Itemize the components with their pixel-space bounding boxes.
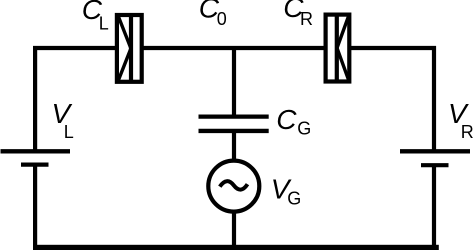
- svg-text:C: C: [276, 104, 297, 135]
- svg-text:G: G: [297, 119, 311, 139]
- battery VR short plate: [421, 163, 449, 167]
- wire VG to bottom bus: [232, 210, 236, 247]
- wire right vertical lower: [432, 165, 436, 247]
- capacitor CG top plate: [199, 114, 269, 118]
- wire left vertical lower: [33, 165, 37, 247]
- tunnel junction CR box: [326, 15, 350, 82]
- wire top horizontal bus: [33, 46, 436, 50]
- tunnel junction CR diagonals: [337, 16, 349, 81]
- svg-text:R: R: [461, 122, 474, 142]
- tunnel junction CR divider: [335, 14, 339, 83]
- battery VR long plate: [400, 149, 470, 153]
- capacitor CG bottom plate: [199, 129, 269, 133]
- svg-text:L: L: [99, 14, 109, 34]
- tunnel junction CL diagonals: [118, 16, 131, 82]
- wire left vertical upper: [33, 46, 37, 150]
- tunnel junction CL box: [117, 15, 142, 82]
- svg-text:L: L: [64, 122, 74, 142]
- battery VL short plate: [21, 163, 49, 167]
- wire right vertical upper: [432, 46, 436, 150]
- wire CG to VG: [232, 131, 236, 162]
- tunnel junction CL divider: [129, 14, 133, 83]
- wire node C0 down to CG: [232, 48, 236, 116]
- wire bottom bus: [33, 245, 439, 250]
- battery VL long plate: [1, 149, 71, 153]
- svg-text:0: 0: [217, 9, 227, 29]
- AC source VG sine wave: [220, 181, 248, 189]
- svg-text:G: G: [287, 189, 301, 209]
- AC source VG circle: [208, 161, 259, 212]
- svg-text:R: R: [300, 9, 313, 29]
